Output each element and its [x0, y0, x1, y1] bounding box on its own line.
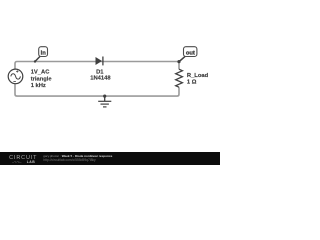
svg-text:triangle: triangle: [31, 76, 53, 82]
svg-text:1N4148: 1N4148: [90, 75, 111, 81]
svg-text:1 Ω: 1 Ω: [187, 80, 197, 86]
svg-text:in: in: [41, 51, 47, 57]
svg-text:out: out: [186, 51, 195, 57]
svg-text:R_Load: R_Load: [187, 73, 209, 79]
svg-text:1 kHz: 1 kHz: [31, 83, 46, 89]
svg-text:1V_AC: 1V_AC: [31, 70, 51, 76]
